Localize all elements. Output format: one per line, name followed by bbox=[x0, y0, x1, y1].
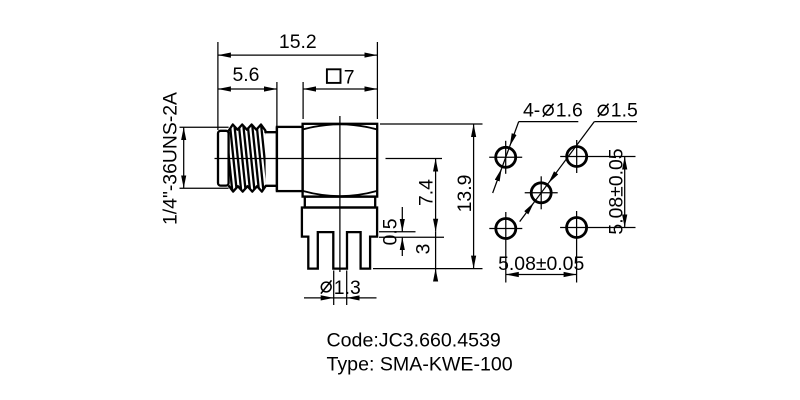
svg-text:7: 7 bbox=[344, 66, 355, 88]
svg-text:1.5: 1.5 bbox=[611, 99, 638, 121]
hole top-right bbox=[567, 147, 587, 167]
dimension line 15.2 bbox=[218, 54, 378, 56]
extension line recess (0.5 top) bbox=[379, 231, 416, 233]
dimension line thread diameter bbox=[183, 127, 185, 188]
svg-text:5.08±0.05: 5.08±0.05 bbox=[498, 253, 584, 275]
svg-text:1/4"-36UNS-2A: 1/4"-36UNS-2A bbox=[160, 92, 182, 225]
dimension text dia 1.3 bbox=[321, 280, 332, 293]
body bottom arc bbox=[303, 191, 378, 196]
dimension line dia 1.3 left arrow bbox=[304, 297, 334, 299]
svg-text:Type: SMA-KWE-100: Type: SMA-KWE-100 bbox=[327, 354, 513, 376]
extension line pin left bbox=[333, 271, 335, 306]
dimension line 5.6 bbox=[218, 88, 277, 90]
leader line 4-dia1.6 bbox=[493, 122, 579, 193]
extension line (5.6 right) bbox=[276, 82, 278, 126]
dimension line 3 bbox=[435, 232, 437, 269]
hole bottom-left crosshair bbox=[489, 212, 522, 283]
extension line pin bottom (13.9/3) bbox=[373, 268, 483, 270]
hole top-left bbox=[496, 147, 516, 167]
connector coupling nut left face bbox=[218, 131, 229, 186]
svg-text:15.2: 15.2 bbox=[279, 31, 317, 53]
svg-text:3: 3 bbox=[413, 244, 435, 255]
thread crest profile bottom bbox=[229, 186, 277, 192]
dimension arrow 0.5 lower bbox=[401, 237, 403, 256]
dimension line square 7 bbox=[303, 88, 377, 90]
svg-text:4-: 4- bbox=[523, 99, 540, 121]
svg-text:1.3: 1.3 bbox=[334, 277, 361, 299]
extension line body top (13.9) bbox=[380, 123, 483, 125]
hole top-left crosshair bbox=[489, 141, 522, 174]
svg-text:5.6: 5.6 bbox=[233, 64, 260, 86]
hole bottom-right bbox=[567, 218, 587, 238]
svg-text:0.5: 0.5 bbox=[380, 218, 402, 245]
leader line dia1.5 bbox=[520, 122, 637, 222]
hole center bbox=[531, 183, 551, 203]
hole top-right crosshair bbox=[560, 140, 635, 173]
dimension arrow 0.5 upper bbox=[401, 207, 403, 232]
extension line thread top bbox=[180, 126, 229, 128]
dimension line dia 1.3 right arrow bbox=[347, 297, 377, 299]
extension line thread bottom bbox=[180, 187, 229, 189]
svg-text:Code:JC3.660.4539: Code:JC3.660.4539 bbox=[327, 329, 501, 351]
dimension line 13.9 bbox=[473, 124, 475, 269]
dimension line dia 1.3 middle bbox=[334, 297, 347, 299]
square symbol bbox=[327, 69, 341, 83]
extension line right (15.2/square7) bbox=[376, 42, 378, 119]
svg-text:13.9: 13.9 bbox=[454, 175, 476, 213]
insulator neck bbox=[305, 197, 375, 208]
dimension line 7.4 bbox=[435, 159, 437, 232]
hole center crosshair bbox=[525, 176, 558, 209]
flange with legs and center pin bbox=[302, 208, 377, 269]
extension line left (15.2/5.6) bbox=[217, 42, 219, 130]
dimension arrow 3 bottom bbox=[435, 269, 437, 282]
svg-text:7.4: 7.4 bbox=[416, 179, 438, 206]
svg-text:5.08±0.05: 5.08±0.05 bbox=[606, 148, 628, 234]
dimension line 5.08 horizontal bbox=[506, 274, 577, 276]
centerline extension right (7.4 datum) bbox=[386, 158, 443, 160]
barrel section bbox=[277, 127, 303, 191]
svg-text:1.6: 1.6 bbox=[556, 99, 583, 121]
unthreaded shank step edge bbox=[276, 127, 278, 191]
dimension line 5.08 vertical bbox=[624, 157, 626, 228]
hole bottom-left bbox=[496, 219, 516, 239]
thread crest profile top bbox=[229, 125, 277, 133]
extension line pin right bbox=[346, 271, 348, 306]
vertical centerline of body bbox=[339, 116, 341, 272]
hole bottom-right crosshair bbox=[560, 211, 635, 283]
horizontal centerline of barrel bbox=[215, 158, 377, 160]
extension line (square7 left) bbox=[302, 82, 304, 119]
body top arc bbox=[303, 124, 378, 129]
extension line flange bottom (0.5 bottom / 7.4 / 3) bbox=[379, 236, 444, 238]
square body 7mm bbox=[303, 124, 378, 197]
label dia1.5 bbox=[598, 104, 609, 117]
